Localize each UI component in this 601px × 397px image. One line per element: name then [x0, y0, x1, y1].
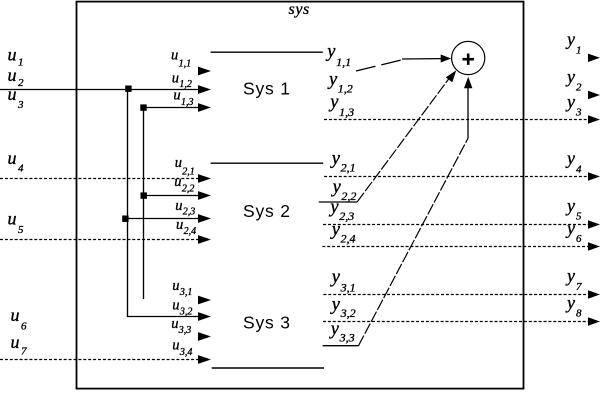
- svg-text:u: u: [11, 332, 20, 352]
- svg-text:u: u: [172, 278, 179, 294]
- svg-text:y: y: [565, 266, 575, 286]
- svg-text:u: u: [8, 65, 17, 85]
- svg-text:2,2: 2,2: [182, 184, 195, 195]
- svg-text:1,1: 1,1: [336, 55, 351, 69]
- svg-text:u: u: [173, 87, 180, 103]
- svg-text:u: u: [175, 198, 182, 214]
- svg-text:2,4: 2,4: [341, 231, 356, 245]
- svg-text:2,3: 2,3: [339, 209, 354, 223]
- svg-text:2: 2: [576, 82, 582, 94]
- svg-text:y: y: [565, 292, 575, 312]
- svg-text:y: y: [328, 93, 339, 113]
- svg-text:u: u: [8, 148, 17, 168]
- svg-text:3,2: 3,2: [340, 306, 356, 320]
- svg-text:u: u: [8, 84, 17, 104]
- svg-text:3,1: 3,1: [179, 287, 193, 298]
- svg-text:y: y: [565, 66, 575, 86]
- svg-text:Sys 3: Sys 3: [243, 312, 291, 332]
- svg-text:u: u: [171, 48, 178, 64]
- svg-text:u: u: [175, 155, 182, 171]
- svg-text:y: y: [330, 149, 341, 169]
- svg-text:1: 1: [18, 57, 24, 69]
- svg-text:2,3: 2,3: [183, 207, 196, 218]
- svg-text:1,1: 1,1: [179, 59, 192, 70]
- svg-text:7: 7: [21, 346, 27, 358]
- svg-text:3,3: 3,3: [178, 325, 192, 336]
- svg-text:u: u: [172, 298, 179, 314]
- svg-text:3: 3: [17, 99, 24, 111]
- svg-text:y: y: [331, 178, 342, 198]
- svg-text:u: u: [176, 217, 183, 233]
- svg-text:6: 6: [21, 320, 27, 332]
- svg-text:u: u: [8, 209, 17, 229]
- svg-text:3,4: 3,4: [179, 347, 193, 358]
- svg-text:y: y: [330, 295, 341, 315]
- svg-text:u: u: [171, 316, 178, 332]
- svg-text:3,1: 3,1: [340, 280, 356, 294]
- svg-text:1,2: 1,2: [179, 79, 192, 90]
- svg-text:y: y: [330, 220, 341, 240]
- svg-text:u: u: [172, 338, 179, 354]
- svg-text:3,3: 3,3: [339, 330, 355, 344]
- svg-text:y: y: [565, 148, 575, 168]
- svg-text:2,1: 2,1: [182, 166, 195, 177]
- svg-text:y: y: [328, 197, 339, 217]
- svg-text:2: 2: [18, 77, 24, 89]
- svg-text:3,2: 3,2: [179, 307, 193, 318]
- svg-text:1,2: 1,2: [338, 81, 353, 95]
- svg-text:1: 1: [576, 45, 582, 57]
- svg-text:7: 7: [576, 281, 582, 293]
- svg-text:1,3: 1,3: [181, 97, 194, 108]
- svg-text:Sys 1: Sys 1: [243, 78, 291, 98]
- svg-text:u: u: [172, 70, 179, 86]
- svg-text:5: 5: [576, 211, 582, 223]
- svg-text:y: y: [565, 195, 575, 215]
- svg-text:u: u: [8, 44, 17, 64]
- svg-text:4: 4: [18, 163, 24, 175]
- svg-text:5: 5: [18, 224, 24, 236]
- svg-text:2,1: 2,1: [341, 161, 356, 175]
- svg-text:y: y: [329, 319, 340, 339]
- svg-text:2,2: 2,2: [341, 189, 356, 203]
- svg-text:2,4: 2,4: [184, 226, 197, 237]
- svg-text:sys: sys: [289, 1, 310, 18]
- svg-text:8: 8: [576, 308, 582, 320]
- svg-text:y: y: [565, 91, 575, 111]
- svg-text:Sys 2: Sys 2: [243, 201, 291, 221]
- svg-text:u: u: [11, 305, 20, 325]
- svg-text:y: y: [330, 268, 341, 288]
- svg-text:y: y: [565, 29, 575, 49]
- svg-text:1,3: 1,3: [339, 105, 354, 119]
- svg-text:4: 4: [576, 163, 582, 175]
- svg-text:6: 6: [576, 233, 582, 245]
- svg-text:3: 3: [575, 107, 582, 119]
- svg-text:y: y: [325, 42, 336, 62]
- svg-text:y: y: [565, 218, 575, 238]
- svg-text:u: u: [174, 174, 181, 190]
- svg-text:y: y: [327, 70, 338, 90]
